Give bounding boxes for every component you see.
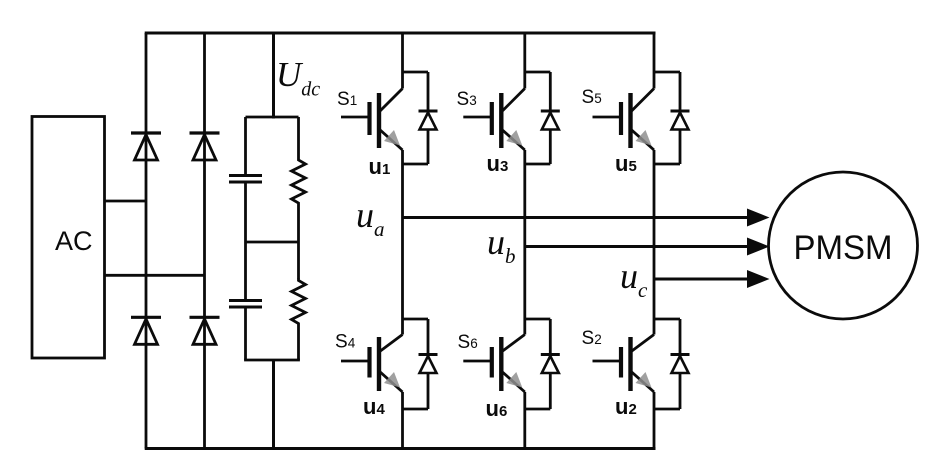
- svg-text:S3: S3: [457, 89, 477, 110]
- diode D2 bridge leg 2 top: [190, 133, 220, 160]
- svg-text:PMSM: PMSM: [794, 229, 893, 267]
- wire: phase B midpoint: [523, 150, 526, 335]
- svg-text:S4: S4: [335, 332, 356, 353]
- resistor R1: [292, 158, 306, 205]
- wire: DC link middle tie: [246, 241, 299, 244]
- wire: AC upper terminal to bridge leg 1: [105, 200, 147, 203]
- wire: phase B emitter to bottom bus: [523, 392, 526, 449]
- svg-text:Udc: Udc: [276, 55, 320, 101]
- diode D1 bridge leg 1 top: [131, 133, 161, 160]
- svg-text:ub: ub: [487, 222, 516, 268]
- svg-text:u3: u3: [487, 151, 509, 176]
- wire: output phase a: [403, 216, 749, 219]
- arrowhead phase b: [747, 238, 770, 256]
- IGBT S4: [341, 335, 403, 393]
- capacitor C1: [229, 176, 262, 183]
- wire: DC link top split: [246, 116, 299, 119]
- wire: capacitor branch middle: [244, 182, 247, 301]
- IGBT S3: [463, 89, 525, 151]
- wire: bottom DC bus: [145, 447, 656, 450]
- svg-text:S1: S1: [337, 89, 357, 110]
- wire: DC link bottom stem: [272, 360, 275, 449]
- wire: DC link top stem: [272, 33, 275, 119]
- wire: phase C midpoint: [653, 150, 656, 335]
- svg-text:S6: S6: [458, 332, 478, 353]
- wire: output phase b: [525, 245, 748, 248]
- wire: phase A midpoint: [401, 150, 404, 335]
- wire: capacitor branch lower: [244, 307, 247, 360]
- freewheeling diode of S3: [524, 72, 560, 164]
- wire: phase B collector from top bus: [523, 33, 526, 89]
- svg-text:AC: AC: [55, 226, 93, 256]
- arrowhead phase c: [747, 270, 770, 288]
- wire: output phase c: [654, 278, 748, 281]
- wire: AC lower terminal to bridge leg 2: [105, 274, 205, 277]
- svg-text:uc: uc: [620, 256, 648, 302]
- svg-text:u2: u2: [615, 394, 637, 419]
- IGBT S2: [593, 335, 655, 393]
- svg-text:u4: u4: [363, 394, 385, 419]
- svg-text:ua: ua: [356, 195, 385, 241]
- AC source: [32, 117, 105, 359]
- svg-text:u1: u1: [369, 154, 391, 179]
- PMSM motor circle: [769, 172, 918, 319]
- wire: bridge leg 2 vertical: [203, 33, 206, 449]
- freewheeling diode of S4: [402, 319, 438, 409]
- IGBT S1: [341, 89, 403, 151]
- freewheeling diode of S6: [524, 319, 560, 409]
- svg-text:S5: S5: [582, 87, 602, 108]
- wire: phase C emitter to bottom bus: [653, 392, 656, 449]
- resistor R2: [292, 279, 306, 326]
- wire: phase A emitter to bottom bus: [401, 392, 404, 449]
- wire: resistor branch middle: [297, 205, 300, 279]
- svg-text:u6: u6: [486, 396, 508, 421]
- wire: capacitor branch upper: [244, 117, 247, 176]
- wire: resistor branch lower: [297, 326, 300, 361]
- freewheeling diode of S5: [654, 72, 690, 164]
- IGBT S6: [463, 335, 525, 393]
- svg-text:S2: S2: [582, 328, 602, 349]
- IGBT S5: [593, 89, 655, 151]
- wire: top DC bus: [145, 32, 656, 35]
- capacitor C2: [229, 301, 262, 308]
- freewheeling diode of S2: [654, 319, 690, 409]
- wire: resistor branch upper: [297, 117, 300, 158]
- wire: bridge leg 1 vertical: [145, 33, 148, 449]
- wire: phase C collector from top bus: [653, 33, 656, 89]
- freewheeling diode of S1: [402, 72, 438, 164]
- diode D4 bridge leg 2 bottom: [190, 317, 220, 344]
- diode D3 bridge leg 1 bottom: [131, 317, 161, 344]
- wire: phase A collector from top bus: [401, 33, 404, 89]
- wire: DC link bottom join: [244, 359, 300, 362]
- svg-text:u5: u5: [615, 151, 637, 176]
- arrowhead phase a: [747, 209, 770, 227]
